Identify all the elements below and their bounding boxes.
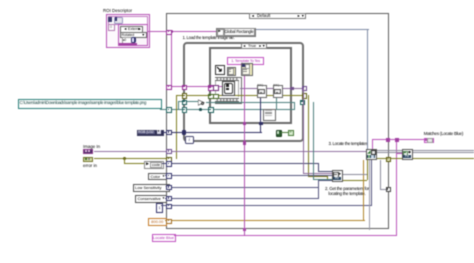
wire locate down right	[380, 160, 381, 190]
wire error branch into code node	[124, 163, 144, 164]
Matches indicator	[424, 138, 434, 144]
wire Low Sensitivity	[168, 187, 319, 188]
wire RGB enum (navy)	[162, 132, 262, 133]
Matches indicator label	[424, 131, 463, 136]
tunnel ROI2 on case border	[166, 85, 171, 90]
junction ROI branch	[170, 30, 173, 33]
wire RGB riser to IMAQ create	[260, 96, 261, 134]
wire locate to tunnel right	[380, 189, 388, 190]
tunnel error on loop right border	[302, 93, 307, 98]
wire error down right of loop	[308, 95, 309, 176]
wire path riser at loop right	[294, 102, 295, 110]
wire error branch down	[124, 158, 125, 163]
Image In label	[83, 144, 100, 149]
junction image on case right	[290, 87, 293, 90]
wire matches riser from locate VI	[372, 139, 373, 149]
string label 1. Template To Tes	[227, 57, 264, 65]
tunnel code on case border	[166, 161, 171, 166]
sequence center icon learn pattern	[222, 81, 236, 96]
wire error in to case (olive)	[94, 158, 169, 159]
junction string at loop bottom	[243, 228, 246, 231]
tunnel on sequence border	[213, 85, 219, 91]
node IMAQ readfile	[273, 85, 284, 98]
wire numeric small	[161, 205, 372, 206]
wire matches (magenta) horizontal	[372, 139, 424, 140]
wire path GetPath out	[274, 109, 295, 110]
path constant (blue template.png)	[18, 99, 162, 109]
wire Image In (violet)	[94, 151, 367, 152]
Image In control	[83, 149, 94, 155]
numeric constant small	[156, 203, 163, 213]
while loop	[183, 42, 305, 143]
wire error corner down	[327, 176, 328, 180]
node get params VI	[332, 170, 343, 182]
tunnel RGB on inner case bottom	[259, 122, 263, 126]
ROI ID dropdown External	[120, 26, 143, 33]
enum RGB (U32) image type	[137, 130, 164, 136]
tunnel RGB on case border	[166, 130, 171, 135]
wire image into params node	[303, 173, 332, 174]
wire gray up to locate	[369, 160, 370, 230]
wire 800.00 (orange)	[165, 220, 365, 221]
wire LowSens into node	[318, 180, 332, 181]
tunnel Color on case border	[166, 173, 171, 178]
wire image inside loop A to B	[265, 88, 273, 89]
node current VI path	[215, 65, 225, 75]
node read file (yellow)	[227, 67, 237, 77]
text: 3. Locate the templates	[329, 141, 368, 146]
wire numeric riser to locate VI	[371, 160, 372, 206]
wire ROI cluster to unbundle (magenta)	[148, 31, 217, 32]
tunnel image on case border	[166, 149, 171, 154]
junction matches at case border	[386, 138, 390, 142]
wire error out right (olive)	[377, 158, 403, 159]
wire code out (blue)	[162, 163, 320, 164]
tunnel numeric on case border	[166, 204, 171, 209]
ROI Descriptor label	[103, 8, 132, 13]
junction error branch	[123, 157, 126, 160]
wire Locate Blue string (magenta)	[174, 235, 398, 236]
wire string riser at 395	[396, 139, 397, 235]
wire matches array out (gray pair)	[377, 150, 403, 151]
wire error inside case up	[176, 95, 177, 159]
error in label	[83, 163, 97, 168]
wire Color ring	[165, 175, 332, 176]
case selector Default	[249, 13, 306, 19]
wire ROI branch vertical	[171, 31, 172, 87]
ring Low Sensitivity	[133, 184, 170, 192]
wire ROI inside case to sequence	[211, 86, 222, 87]
wire error into params node	[308, 176, 327, 177]
wire rect out of unbundle (blue-gray)	[254, 29, 369, 30]
wire rect vertical down to locate VI	[367, 29, 368, 150]
junction string case bottom	[243, 122, 246, 125]
text: 2. Get the parameters	[319, 186, 375, 196]
wire error inside loop	[186, 95, 304, 96]
junction string loop bottom	[243, 141, 246, 144]
tunnel error on case border	[166, 157, 171, 162]
wire error along 180 to locate	[327, 180, 368, 181]
tunnel ROI on inner case border	[208, 85, 214, 91]
wire path from triangle to loop tunnel	[206, 102, 295, 103]
node strip path	[263, 109, 276, 121]
wire teal down right of loop	[313, 102, 314, 180]
unbundle code node	[144, 161, 164, 170]
wire error to loop tunnel	[176, 95, 184, 96]
tunnel error on inner case border	[208, 94, 214, 100]
ROI Descriptor cluster	[106, 14, 150, 48]
junction matches at 395	[395, 138, 399, 142]
tunnel path on case border	[166, 107, 171, 112]
wire code down to params	[318, 163, 319, 171]
wire ROI branch horizontal into loop	[171, 86, 215, 87]
tunnel LowSens on case border	[166, 185, 171, 190]
tunnel 800 on case border	[166, 219, 171, 224]
ROI global rectangle array row	[108, 16, 149, 25]
ROI contours cluster	[118, 24, 149, 46]
wire condition (green)	[281, 132, 289, 133]
case structure True	[209, 47, 292, 124]
tunnel ROI on loop border	[182, 85, 187, 90]
wire Conservative	[165, 198, 320, 199]
loop iteration terminal i	[185, 136, 194, 144]
node match pattern VI	[402, 149, 413, 160]
node build path (yellow)	[241, 63, 253, 76]
wire path constant (teal)	[160, 109, 264, 110]
wire image B to loop border	[281, 88, 302, 89]
tunnel image on loop right border	[302, 86, 307, 91]
flat sequence structure	[215, 77, 242, 104]
ROI type dropdown Rotated	[120, 32, 147, 39]
wire params node outputs to locate	[343, 174, 368, 175]
wire LowSens riser	[318, 180, 319, 188]
tunnel error X on case right border	[386, 157, 391, 162]
text: 1. Load the template image file.	[183, 35, 235, 40]
ring Conservative	[135, 195, 167, 203]
ROI contours index	[108, 24, 115, 31]
tunnel path on loop border (upper)	[182, 100, 187, 105]
wire 800 riser to locate VI	[363, 160, 364, 221]
wire path branch horizontal	[178, 101, 198, 102]
ring Color	[148, 173, 167, 181]
junction path dot	[199, 108, 202, 111]
node IMAQ create	[257, 85, 268, 98]
node locate template VI	[366, 149, 377, 160]
wire string stub into match node	[396, 153, 402, 154]
tunnel ROI on case border	[166, 30, 171, 35]
tunnel error on sequence border	[213, 94, 219, 100]
tunnel RGB on loop border	[182, 130, 187, 135]
numeric constant 800.00	[148, 218, 167, 226]
string constant Locate Blue	[152, 234, 176, 242]
unbundle Global Rectangle	[216, 28, 256, 37]
wire image seq to A	[240, 88, 257, 89]
ROI cluster bottom bar	[119, 43, 137, 45]
string-to-path conversion triangle	[198, 99, 206, 106]
wire string vertical at 244	[244, 75, 245, 236]
wire teal into params node	[313, 179, 332, 180]
tunnel on case right border	[386, 187, 391, 192]
wire path branch vertical	[178, 101, 179, 109]
tunnel error on loop border	[182, 93, 187, 98]
tunnel path on inner case border	[208, 107, 214, 113]
tunnel path on loop right border	[300, 100, 305, 105]
wire code into params node	[318, 171, 332, 172]
case selector True	[241, 43, 267, 49]
tunnel path on loop border (lower)	[182, 107, 187, 112]
wire Conservative riser	[318, 188, 319, 198]
ROI coordinates numeric	[122, 37, 132, 44]
wire path riser to IMAQ B	[276, 96, 277, 110]
loop condition terminal	[276, 130, 283, 137]
tunnel Conservative on case border	[166, 196, 171, 201]
wire olive up to locate	[367, 160, 368, 180]
wire image down right of loop	[303, 88, 304, 174]
boolean tunnel X	[288, 130, 294, 136]
error in control	[83, 157, 94, 163]
case structure outer (Default)	[166, 13, 389, 229]
